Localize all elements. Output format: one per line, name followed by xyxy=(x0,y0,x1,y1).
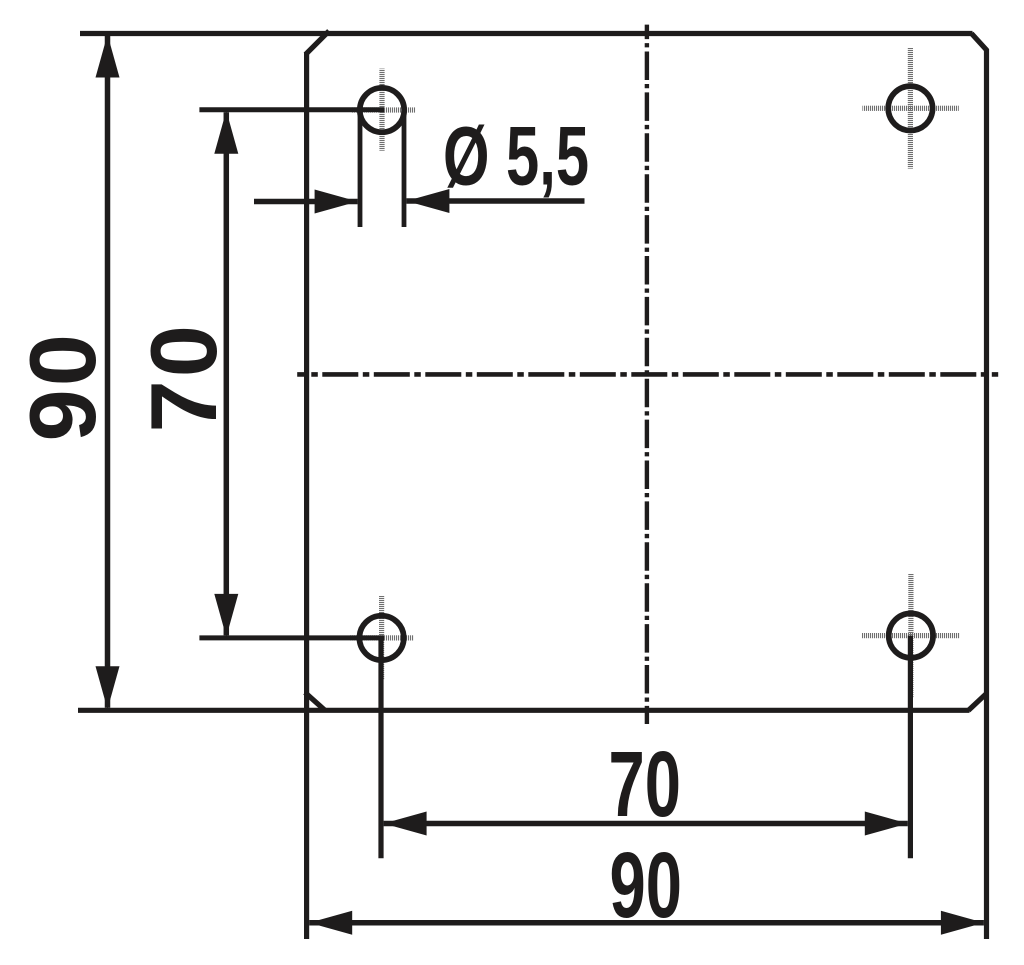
hole top-left xyxy=(360,88,404,132)
top edge + extension line for 90 xyxy=(80,31,973,36)
dimension 90 horizontal: arrow right xyxy=(941,911,984,935)
dimension 70 vertical: extension line top xyxy=(199,107,384,112)
center mark top-left hole xyxy=(351,69,415,151)
chamfer bottom-left xyxy=(305,693,325,711)
svg-text:70: 70 xyxy=(131,322,236,433)
dimension diameter 5,5: arrow pointing right xyxy=(315,190,358,214)
left edge + extension line down to 90 dim xyxy=(304,52,309,939)
dimension 70 horizontal: arrow right xyxy=(865,812,908,836)
dimension 90 horizontal: dim line xyxy=(309,920,984,926)
dimension 70 vertical: arrow down xyxy=(214,594,238,637)
centerline horizontal xyxy=(297,372,998,377)
dimension diameter 5,5: dim line right segment / leader under text xyxy=(406,198,584,203)
hole top-right xyxy=(888,86,932,130)
svg-text:90: 90 xyxy=(10,331,115,442)
svg-text:Ø 5,5: Ø 5,5 xyxy=(443,110,589,203)
center mark bottom-left hole xyxy=(350,596,414,680)
chamfer bottom-right xyxy=(969,693,988,710)
dimension 90 vertical: arrow down xyxy=(96,666,120,709)
bottom edge + extension line for 90 xyxy=(78,708,970,713)
hole bottom-right xyxy=(889,613,933,657)
dimension 90 horizontal: arrow left xyxy=(309,911,352,935)
dimension 70 vertical: arrow up xyxy=(214,111,238,154)
chamfer top-left xyxy=(306,31,330,55)
dimension 70 horizontal: extension line left xyxy=(378,638,383,858)
svg-text:70: 70 xyxy=(609,733,681,837)
dimension 70 horizontal: arrow left xyxy=(384,812,427,836)
centerline vertical xyxy=(645,25,649,724)
right edge + extension line down to 90 dim xyxy=(984,49,989,939)
center mark bottom-right hole xyxy=(862,574,960,698)
dimension 70 horizontal: extension line right xyxy=(908,636,913,859)
dimension diameter 5,5: dim line left segment xyxy=(254,199,358,204)
chamfer top-right xyxy=(972,34,988,51)
center mark top-right hole xyxy=(862,48,958,169)
dimension 90 vertical: dim line xyxy=(105,36,111,708)
dimension 70 vertical: extension line bottom xyxy=(199,635,384,640)
dimension 70 horizontal: dim line xyxy=(384,821,908,827)
svg-text:90: 90 xyxy=(610,834,682,938)
dimension 90 vertical: arrow up xyxy=(96,35,120,78)
dimension 70 vertical: dim line xyxy=(224,112,230,635)
dimension diameter 5,5: extension line right xyxy=(402,108,407,227)
hole bottom-left xyxy=(359,616,403,660)
dimension diameter 5,5: arrow pointing left xyxy=(406,189,449,213)
dimension diameter 5,5: extension line left xyxy=(358,108,363,227)
